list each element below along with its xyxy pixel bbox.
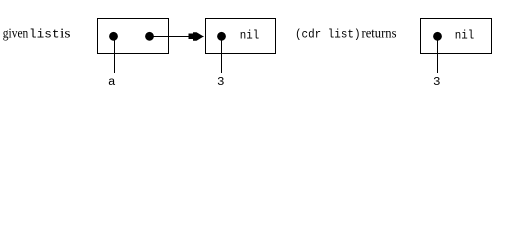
- svg-text:nil: nil: [455, 30, 475, 43]
- svg-text:3: 3: [217, 76, 225, 89]
- svg-text:nil: nil: [240, 30, 260, 43]
- arrowhead into cell 2: [189, 34, 194, 40]
- svg-text:list: list: [29, 29, 60, 42]
- svg-text:(cdr list): (cdr list): [295, 29, 361, 42]
- svg-text:returns: returns: [362, 27, 397, 42]
- svg-text:a: a: [108, 76, 116, 89]
- cons cell 3 box: [421, 19, 492, 54]
- cons cell 3 car pointer dot: [433, 32, 442, 41]
- svg-text:given: given: [3, 27, 29, 42]
- cons cell 2 car pointer dot: [217, 32, 226, 41]
- cons cell 2 box: [206, 19, 276, 54]
- cons cell 1 car pointer dot: [109, 32, 118, 41]
- wire: cdr arrow shaft to cell 2: [149, 36, 204, 38]
- cons cell 1 box: [98, 19, 169, 54]
- svg-text:3: 3: [433, 76, 441, 89]
- wire: cell 3 car tail down to label 3: [437, 40, 439, 73]
- wire: cell 2 car tail down to label 3: [221, 40, 223, 73]
- cons cell 1 cdr pointer dot: [145, 32, 154, 41]
- wire: car tail down to label a: [114, 40, 116, 73]
- svg-text:is: is: [60, 27, 71, 42]
